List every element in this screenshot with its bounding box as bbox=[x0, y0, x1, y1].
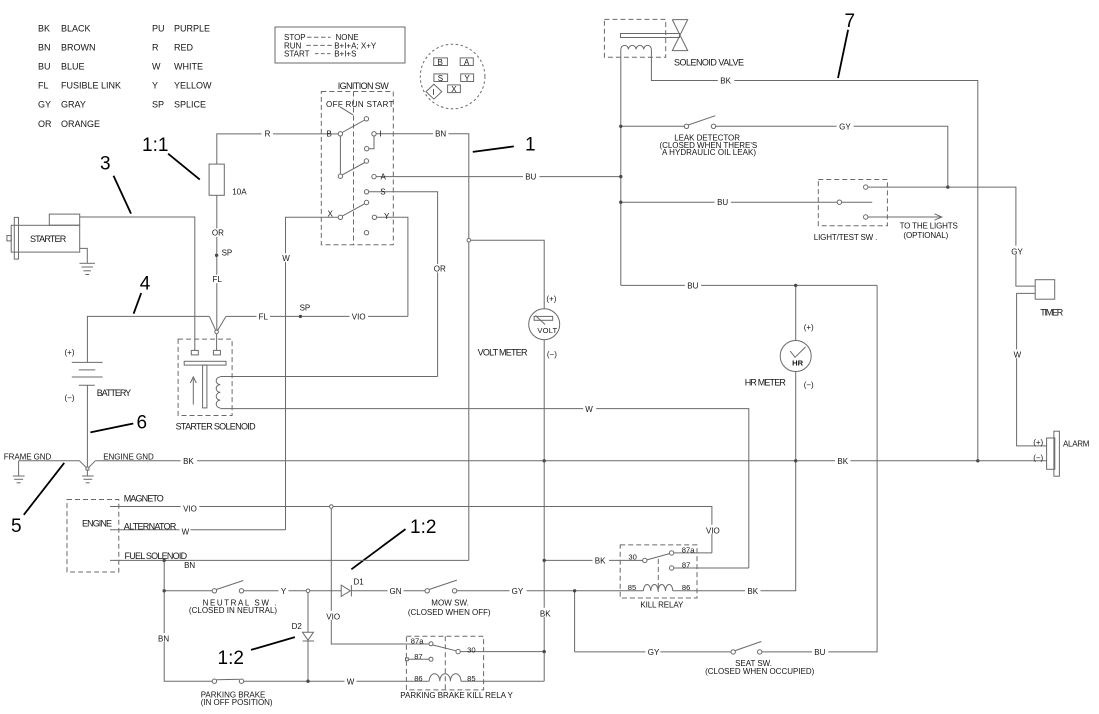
svg-text:OR: OR bbox=[38, 119, 52, 129]
svg-text:I: I bbox=[432, 88, 434, 97]
ignition contact A bbox=[372, 174, 376, 178]
svg-text:GY: GY bbox=[38, 100, 51, 110]
wire volt meter minus down to parking brake kill relay bbox=[543, 340, 545, 682]
ignition switch box bbox=[321, 92, 393, 245]
junction light/test row bbox=[946, 185, 949, 188]
VIO label on battery row bbox=[350, 312, 369, 320]
svg-text:S: S bbox=[380, 187, 385, 196]
svg-text:BK: BK bbox=[747, 587, 758, 596]
wire label R bbox=[262, 130, 274, 138]
wire mow switch to kill relay coil bbox=[457, 590, 644, 592]
svg-text:STARTER: STARTER bbox=[30, 234, 67, 244]
svg-text:BK: BK bbox=[540, 609, 551, 618]
svg-text:BLUE: BLUE bbox=[61, 62, 85, 72]
ignition arm X pole bbox=[364, 200, 368, 204]
connector pin S bbox=[434, 74, 448, 82]
svg-text:START: START bbox=[284, 50, 310, 59]
svg-text:GY: GY bbox=[512, 587, 524, 596]
svg-text:87a: 87a bbox=[411, 637, 424, 646]
wire W row: starter solenoid coil to kill relay 87 bbox=[220, 409, 749, 568]
light/test switch box bbox=[818, 180, 887, 226]
kill relay coil bbox=[643, 585, 672, 591]
wire label BK kill 30 bbox=[593, 556, 610, 564]
engine ground bbox=[86, 470, 88, 476]
wire fuel solenoid BN row bbox=[110, 559, 469, 561]
svg-text:SP: SP bbox=[152, 100, 164, 110]
svg-text:Y: Y bbox=[152, 81, 158, 91]
connector pin I (diamond) bbox=[426, 84, 442, 99]
ignition contact X bbox=[338, 215, 342, 219]
wire timer bottom lead to alarm plus bbox=[1017, 293, 1047, 446]
parking brake kill relay box bbox=[406, 636, 483, 690]
ignition I link bbox=[369, 136, 374, 149]
ignition off pointer line bbox=[340, 107, 353, 115]
svg-text:6: 6 bbox=[137, 412, 148, 433]
wire label BU light/test bbox=[715, 198, 731, 206]
HR meter bbox=[780, 341, 811, 372]
wire parking relay 30 to volt-meter vertical bbox=[460, 651, 544, 653]
svg-text:W: W bbox=[282, 254, 290, 263]
battery plates bbox=[72, 361, 103, 363]
svg-text:VOLT: VOLT bbox=[537, 326, 557, 335]
svg-text:RED: RED bbox=[174, 43, 194, 53]
node on magneto row bbox=[330, 505, 334, 509]
svg-text:W: W bbox=[152, 62, 161, 72]
starter solenoid terminals bbox=[191, 350, 198, 355]
svg-text:SP: SP bbox=[300, 303, 311, 312]
starter solenoid box bbox=[178, 339, 232, 415]
svg-text:BU: BU bbox=[687, 281, 698, 290]
svg-text:MOW SW.: MOW SW. bbox=[431, 599, 469, 608]
svg-text:GY: GY bbox=[839, 122, 851, 131]
wire BN: ignition I to fuel solenoid (vertical) bbox=[376, 134, 469, 561]
wire leak detector GY to light/test switch bbox=[716, 126, 948, 187]
svg-text:FRAME GND: FRAME GND bbox=[4, 453, 52, 462]
svg-text:85: 85 bbox=[467, 674, 475, 683]
junction parking relay 30 node bbox=[543, 650, 546, 653]
connector pin B bbox=[434, 58, 448, 66]
svg-text:4: 4 bbox=[140, 274, 151, 295]
svg-text:D2: D2 bbox=[292, 622, 303, 631]
junction mow GY bbox=[573, 589, 576, 592]
svg-text:BN: BN bbox=[435, 130, 446, 139]
starter solenoid arrow bbox=[192, 379, 194, 405]
svg-text:BU: BU bbox=[814, 648, 825, 657]
wire kill relay 87a to VIO vertical bbox=[674, 552, 712, 554]
wire leak detector row bbox=[621, 125, 685, 127]
connector pin A bbox=[460, 58, 473, 66]
svg-text:HR METER: HR METER bbox=[745, 377, 787, 387]
svg-text:PU: PU bbox=[152, 24, 165, 34]
wire label BU bbox=[523, 172, 540, 180]
svg-text:(CLOSED WHEN OFF): (CLOSED WHEN OFF) bbox=[408, 608, 491, 617]
wire R: fuse to ignition B bbox=[217, 134, 338, 164]
wire Y down to VIO row bbox=[377, 217, 408, 316]
wire solenoid valve BK to right edge down bbox=[651, 49, 977, 460]
wire label W timer bbox=[1012, 349, 1023, 358]
wire label BU row bbox=[685, 281, 701, 289]
svg-text:7: 7 bbox=[845, 11, 856, 32]
svg-text:VOLT METER: VOLT METER bbox=[478, 348, 528, 358]
wire label VIO magneto bbox=[181, 502, 200, 511]
ignition mode table box bbox=[275, 27, 405, 63]
wire label BK volt vertical bbox=[538, 608, 554, 617]
svg-text:A: A bbox=[464, 58, 470, 67]
wire OR row: starter solenoid coil to S wire bbox=[220, 376, 437, 378]
svg-text:BK: BK bbox=[595, 556, 606, 565]
wire label GN bbox=[388, 587, 404, 595]
svg-text:BROWN: BROWN bbox=[61, 43, 96, 53]
wire label GY seat bbox=[645, 648, 660, 656]
svg-text:5: 5 bbox=[11, 516, 22, 537]
fuse F1 10A bbox=[209, 164, 224, 195]
svg-text:OR: OR bbox=[212, 229, 224, 238]
wire light/test upper to timer GY bbox=[868, 187, 1035, 286]
svg-text:(+): (+) bbox=[804, 323, 814, 332]
wire BK kill relay 30 feed bbox=[544, 559, 642, 561]
svg-text:TIMER: TIMER bbox=[1040, 307, 1063, 317]
svg-text:87: 87 bbox=[414, 652, 422, 661]
svg-text:(+): (+) bbox=[1033, 438, 1043, 447]
svg-text:ORANGE: ORANGE bbox=[61, 119, 100, 129]
svg-text:WHITE: WHITE bbox=[174, 62, 203, 72]
wire neutral switch row bbox=[164, 590, 212, 592]
svg-text:BK: BK bbox=[38, 24, 50, 34]
seat switch bbox=[731, 650, 735, 654]
svg-text:3: 3 bbox=[100, 154, 111, 175]
wire parking brake row bbox=[244, 680, 430, 682]
junction BK row HR meter bbox=[794, 459, 797, 462]
timer box bbox=[1035, 280, 1055, 300]
svg-text:BK: BK bbox=[720, 77, 731, 86]
svg-text:VIO: VIO bbox=[706, 526, 720, 535]
ignition spare contact bbox=[364, 231, 368, 235]
wire label OR on S wire bbox=[432, 264, 446, 272]
wire X to W vertical down to alternator bbox=[286, 217, 339, 529]
junction solenoid valve vertical leak row bbox=[619, 125, 622, 128]
svg-text:VIO: VIO bbox=[183, 504, 197, 513]
svg-text:1:2: 1:2 bbox=[218, 648, 244, 669]
svg-text:HR: HR bbox=[792, 359, 803, 368]
kill relay 30 contact bbox=[643, 558, 647, 562]
svg-text:D1: D1 bbox=[354, 578, 365, 587]
diode D1 bbox=[341, 585, 350, 596]
junction fuel solenoid bbox=[163, 559, 166, 562]
wire neutral to D1 row bbox=[310, 590, 341, 592]
svg-text:X: X bbox=[328, 210, 334, 219]
svg-text:KILL RELAY: KILL RELAY bbox=[640, 600, 684, 609]
svg-text:1:2: 1:2 bbox=[410, 517, 436, 538]
splice node at V point bbox=[215, 330, 219, 334]
svg-text:GN: GN bbox=[390, 587, 402, 596]
ignition arm second pole bbox=[364, 159, 368, 163]
svg-text:86: 86 bbox=[682, 583, 690, 592]
svg-text:OR: OR bbox=[434, 264, 446, 273]
volt meter bbox=[529, 309, 560, 340]
ignition B link down bbox=[339, 136, 341, 174]
svg-text:BU: BU bbox=[717, 198, 728, 207]
wire starter output to starter solenoid left terminal bbox=[80, 217, 195, 350]
wire S to OR vertical down to starter solenoid coil bbox=[369, 192, 438, 377]
svg-text:(CLOSED WHEN OCCUPIED): (CLOSED WHEN OCCUPIED) bbox=[705, 667, 815, 676]
svg-text:GRAY: GRAY bbox=[61, 100, 86, 110]
svg-text:LIGHT/TEST SW .: LIGHT/TEST SW . bbox=[814, 233, 878, 242]
wire label BK left bbox=[181, 457, 198, 465]
svg-text:(−): (−) bbox=[804, 380, 814, 389]
wire A to BU node bbox=[376, 176, 621, 178]
svg-text:IGNITION SW: IGNITION SW bbox=[338, 81, 390, 91]
svg-text:BN: BN bbox=[158, 635, 169, 644]
svg-text:(−): (−) bbox=[1033, 453, 1043, 462]
kill relay 87 contact bbox=[669, 566, 673, 570]
svg-text:W: W bbox=[347, 677, 355, 686]
svg-text:W: W bbox=[1014, 351, 1022, 360]
ignition arm B-upper bbox=[342, 120, 364, 133]
solenoid valve box bbox=[604, 19, 665, 57]
junction BU row HR meter bbox=[794, 284, 797, 287]
svg-text:ENGINE: ENGINE bbox=[82, 518, 112, 528]
diode D2 bbox=[303, 632, 314, 640]
starter motor body bbox=[11, 225, 80, 252]
wire label BK kill 86 bbox=[745, 587, 761, 595]
wire light/test middle stub bbox=[842, 201, 873, 203]
wire label W alternator bbox=[180, 526, 191, 535]
svg-text:B+I+S: B+I+S bbox=[334, 50, 356, 59]
wire seat switch BU to HR meter top row bbox=[762, 285, 877, 652]
svg-text:1: 1 bbox=[525, 135, 536, 156]
svg-text:BU: BU bbox=[525, 172, 536, 181]
wire OR/FL: fuse bottom to splice V bbox=[216, 195, 218, 330]
connector plug (round) bbox=[420, 44, 485, 109]
svg-text:86: 86 bbox=[414, 674, 422, 683]
svg-text:PURPLE: PURPLE bbox=[174, 24, 210, 34]
svg-text:FL: FL bbox=[213, 275, 223, 284]
wire D1 to mow switch bbox=[351, 590, 425, 592]
parking relay coil bbox=[429, 674, 461, 681]
wire alternator W row bbox=[110, 529, 286, 531]
svg-text:SPLICE: SPLICE bbox=[174, 100, 206, 110]
svg-text:R: R bbox=[265, 130, 271, 139]
starter solenoid T plunger bbox=[184, 361, 226, 365]
wire kill relay 87 to W vertical bbox=[674, 567, 749, 569]
junction BK row right bbox=[976, 459, 979, 462]
svg-text:VIO: VIO bbox=[326, 612, 340, 621]
wire magneto VIO row bbox=[110, 507, 712, 553]
wire label GY leak bbox=[837, 122, 854, 130]
svg-text:Y: Y bbox=[464, 74, 470, 83]
leak detector switch bbox=[684, 124, 688, 128]
svg-text:Y: Y bbox=[384, 212, 390, 221]
junction kill relay 30 feed bbox=[543, 559, 546, 562]
wire label GY mow bbox=[510, 587, 527, 595]
wire BU row solenoid-valve vertical to HR meter bbox=[621, 284, 877, 286]
engine ground marker square bbox=[86, 467, 89, 470]
svg-text:85: 85 bbox=[628, 583, 636, 592]
neutral switch bbox=[212, 589, 216, 593]
svg-text:FL: FL bbox=[38, 81, 49, 91]
svg-text:BK: BK bbox=[837, 457, 848, 466]
wire branch to volt meter plus bbox=[471, 240, 545, 309]
wire GY mow to seat switch drop bbox=[574, 591, 576, 652]
junction BK row volt meter bbox=[543, 459, 546, 462]
svg-text:(+): (+) bbox=[65, 348, 75, 357]
svg-text:PARKING BRAKE KILL RELA Y: PARKING BRAKE KILL RELA Y bbox=[400, 691, 513, 700]
svg-text:BK: BK bbox=[183, 457, 194, 466]
starter ground bbox=[80, 248, 88, 263]
wire BU to light/test middle bbox=[621, 201, 837, 203]
wire light/test lower to lights arrow bbox=[868, 216, 941, 218]
svg-text:OFF RUN START: OFF RUN START bbox=[326, 100, 394, 109]
parking relay 30 contact bbox=[456, 649, 460, 653]
svg-text:ENGINE GND: ENGINE GND bbox=[103, 453, 154, 462]
parking relay 87a contact bbox=[429, 642, 433, 646]
svg-text:W: W bbox=[182, 528, 190, 537]
wire label W parking row bbox=[345, 677, 357, 685]
svg-text:87a: 87a bbox=[682, 546, 695, 555]
wire label OR on fuse wire bbox=[211, 229, 225, 237]
svg-text:X: X bbox=[451, 85, 457, 94]
svg-text:30: 30 bbox=[628, 553, 636, 562]
svg-text:VIO: VIO bbox=[352, 312, 366, 321]
wire label VIO kill 87a bbox=[704, 525, 721, 534]
wire solenoid valve coil left lead down bbox=[620, 49, 622, 285]
wire D2 branch bbox=[307, 593, 309, 633]
wire label W on W row bbox=[583, 404, 596, 412]
wire label VIO drop bbox=[325, 611, 342, 620]
wire label BN bbox=[433, 130, 449, 138]
svg-text:A HYDRAULIC OIL LEAK): A HYDRAULIC OIL LEAK) bbox=[662, 148, 756, 157]
svg-text:R: R bbox=[152, 43, 159, 53]
wire label BK solenoid valve bbox=[718, 76, 735, 84]
node D2 top bbox=[306, 589, 310, 593]
svg-text:GY: GY bbox=[1011, 247, 1023, 256]
svg-text:(+): (+) bbox=[546, 295, 556, 304]
splice SP dot on FL row bbox=[299, 315, 302, 318]
svg-text:30: 30 bbox=[467, 645, 475, 654]
solenoid valve body (valve bowtie) bbox=[672, 20, 687, 51]
wire FL battery plus row with splice V bbox=[87, 316, 209, 362]
ignition contact B bbox=[338, 132, 342, 136]
svg-text:TO THE LIGHTS: TO THE LIGHTS bbox=[900, 222, 958, 231]
svg-text:S: S bbox=[438, 74, 443, 83]
svg-text:W: W bbox=[585, 405, 593, 414]
wire label W on X wire bbox=[280, 253, 292, 262]
junction D2 bottom bbox=[306, 680, 309, 683]
svg-text:B: B bbox=[327, 130, 332, 139]
svg-text:BATTERY: BATTERY bbox=[97, 388, 132, 398]
wire parking relay coil to volt-meter vertical bbox=[461, 680, 544, 682]
svg-text:ALTERNATOR: ALTERNATOR bbox=[124, 522, 177, 532]
wire BK ground row with dip bbox=[19, 460, 80, 462]
wire kill relay coil to BK vertical of HR meter bbox=[673, 372, 796, 591]
starter solenoid coil bbox=[216, 377, 220, 408]
parking relay 87 terminal bbox=[406, 658, 409, 661]
wire label BN drop bbox=[157, 633, 173, 642]
svg-text:(CLOSED IN NEUTRAL): (CLOSED IN NEUTRAL) bbox=[189, 606, 278, 615]
connector pin Y bbox=[461, 74, 474, 82]
wire battery minus to engine ground bbox=[86, 385, 88, 467]
FL label on battery row bbox=[257, 312, 271, 320]
svg-text:BN: BN bbox=[38, 43, 51, 53]
svg-text:GY: GY bbox=[648, 648, 660, 657]
node volt meter branch bbox=[467, 238, 471, 242]
svg-text:FUSIBLE LINK: FUSIBLE LINK bbox=[61, 81, 121, 91]
wire label FL on fuse wire bbox=[211, 275, 223, 283]
svg-text:(IN OFF POSITION): (IN OFF POSITION) bbox=[201, 698, 273, 707]
svg-text:FL: FL bbox=[259, 312, 269, 321]
connector pin X bbox=[448, 85, 461, 93]
svg-text:BN: BN bbox=[184, 561, 195, 570]
svg-text:FUEL SOLENOID: FUEL SOLENOID bbox=[125, 551, 188, 561]
ignition contact Y bbox=[372, 215, 376, 219]
wire label BU seat bbox=[812, 648, 828, 656]
svg-text:I: I bbox=[380, 130, 382, 139]
svg-text:BU: BU bbox=[38, 62, 51, 72]
wire HR meter plus bbox=[795, 285, 797, 340]
svg-text:MAGNETO: MAGNETO bbox=[124, 493, 164, 503]
svg-text:Y: Y bbox=[281, 587, 287, 596]
wire seat switch row GY bbox=[575, 651, 731, 653]
alarm buzzer bbox=[1047, 438, 1055, 469]
svg-text:(OPTIONAL): (OPTIONAL) bbox=[903, 231, 948, 240]
engine box bbox=[67, 500, 119, 573]
parking brake switch bbox=[212, 679, 216, 683]
wire label BK right bbox=[835, 457, 851, 465]
frame ground bbox=[18, 461, 20, 476]
svg-text:STARTER SOLENOID: STARTER SOLENOID bbox=[176, 422, 257, 432]
svg-text:(−): (−) bbox=[65, 394, 75, 403]
svg-text:SP: SP bbox=[222, 248, 233, 257]
splice SP dot on fuse wire bbox=[215, 254, 218, 257]
svg-text:SOLENOID VALVE: SOLENOID VALVE bbox=[674, 57, 744, 67]
solenoid valve coil bbox=[621, 45, 652, 49]
mow switch bbox=[425, 589, 429, 593]
svg-text:BLACK: BLACK bbox=[61, 24, 91, 34]
svg-text:YELLOW: YELLOW bbox=[174, 81, 212, 91]
solenoid valve plunger bbox=[621, 34, 680, 38]
wire label Y bbox=[279, 587, 289, 595]
ignition contact I bbox=[372, 132, 376, 136]
svg-text:10A: 10A bbox=[232, 187, 247, 196]
svg-text:87: 87 bbox=[682, 560, 690, 569]
wire splice V to starter solenoid right terminal bbox=[216, 334, 218, 351]
svg-text:(−): (−) bbox=[547, 350, 557, 359]
svg-text:A: A bbox=[381, 172, 387, 181]
svg-text:B: B bbox=[438, 58, 443, 67]
kill relay 87a contact bbox=[669, 551, 673, 555]
svg-text:ALARM: ALARM bbox=[1063, 440, 1090, 449]
svg-text:1:1: 1:1 bbox=[142, 135, 168, 156]
wire BN drop to neutral switch and parking brake bbox=[164, 560, 212, 681]
wire label GY timer bbox=[1009, 246, 1025, 255]
wire VIO drop from magneto row to D1 area and parking relay 87a bbox=[331, 508, 429, 644]
LEGEND bbox=[11, 11, 855, 669]
ignition contact S bbox=[364, 190, 368, 194]
kill relay box bbox=[620, 545, 697, 598]
